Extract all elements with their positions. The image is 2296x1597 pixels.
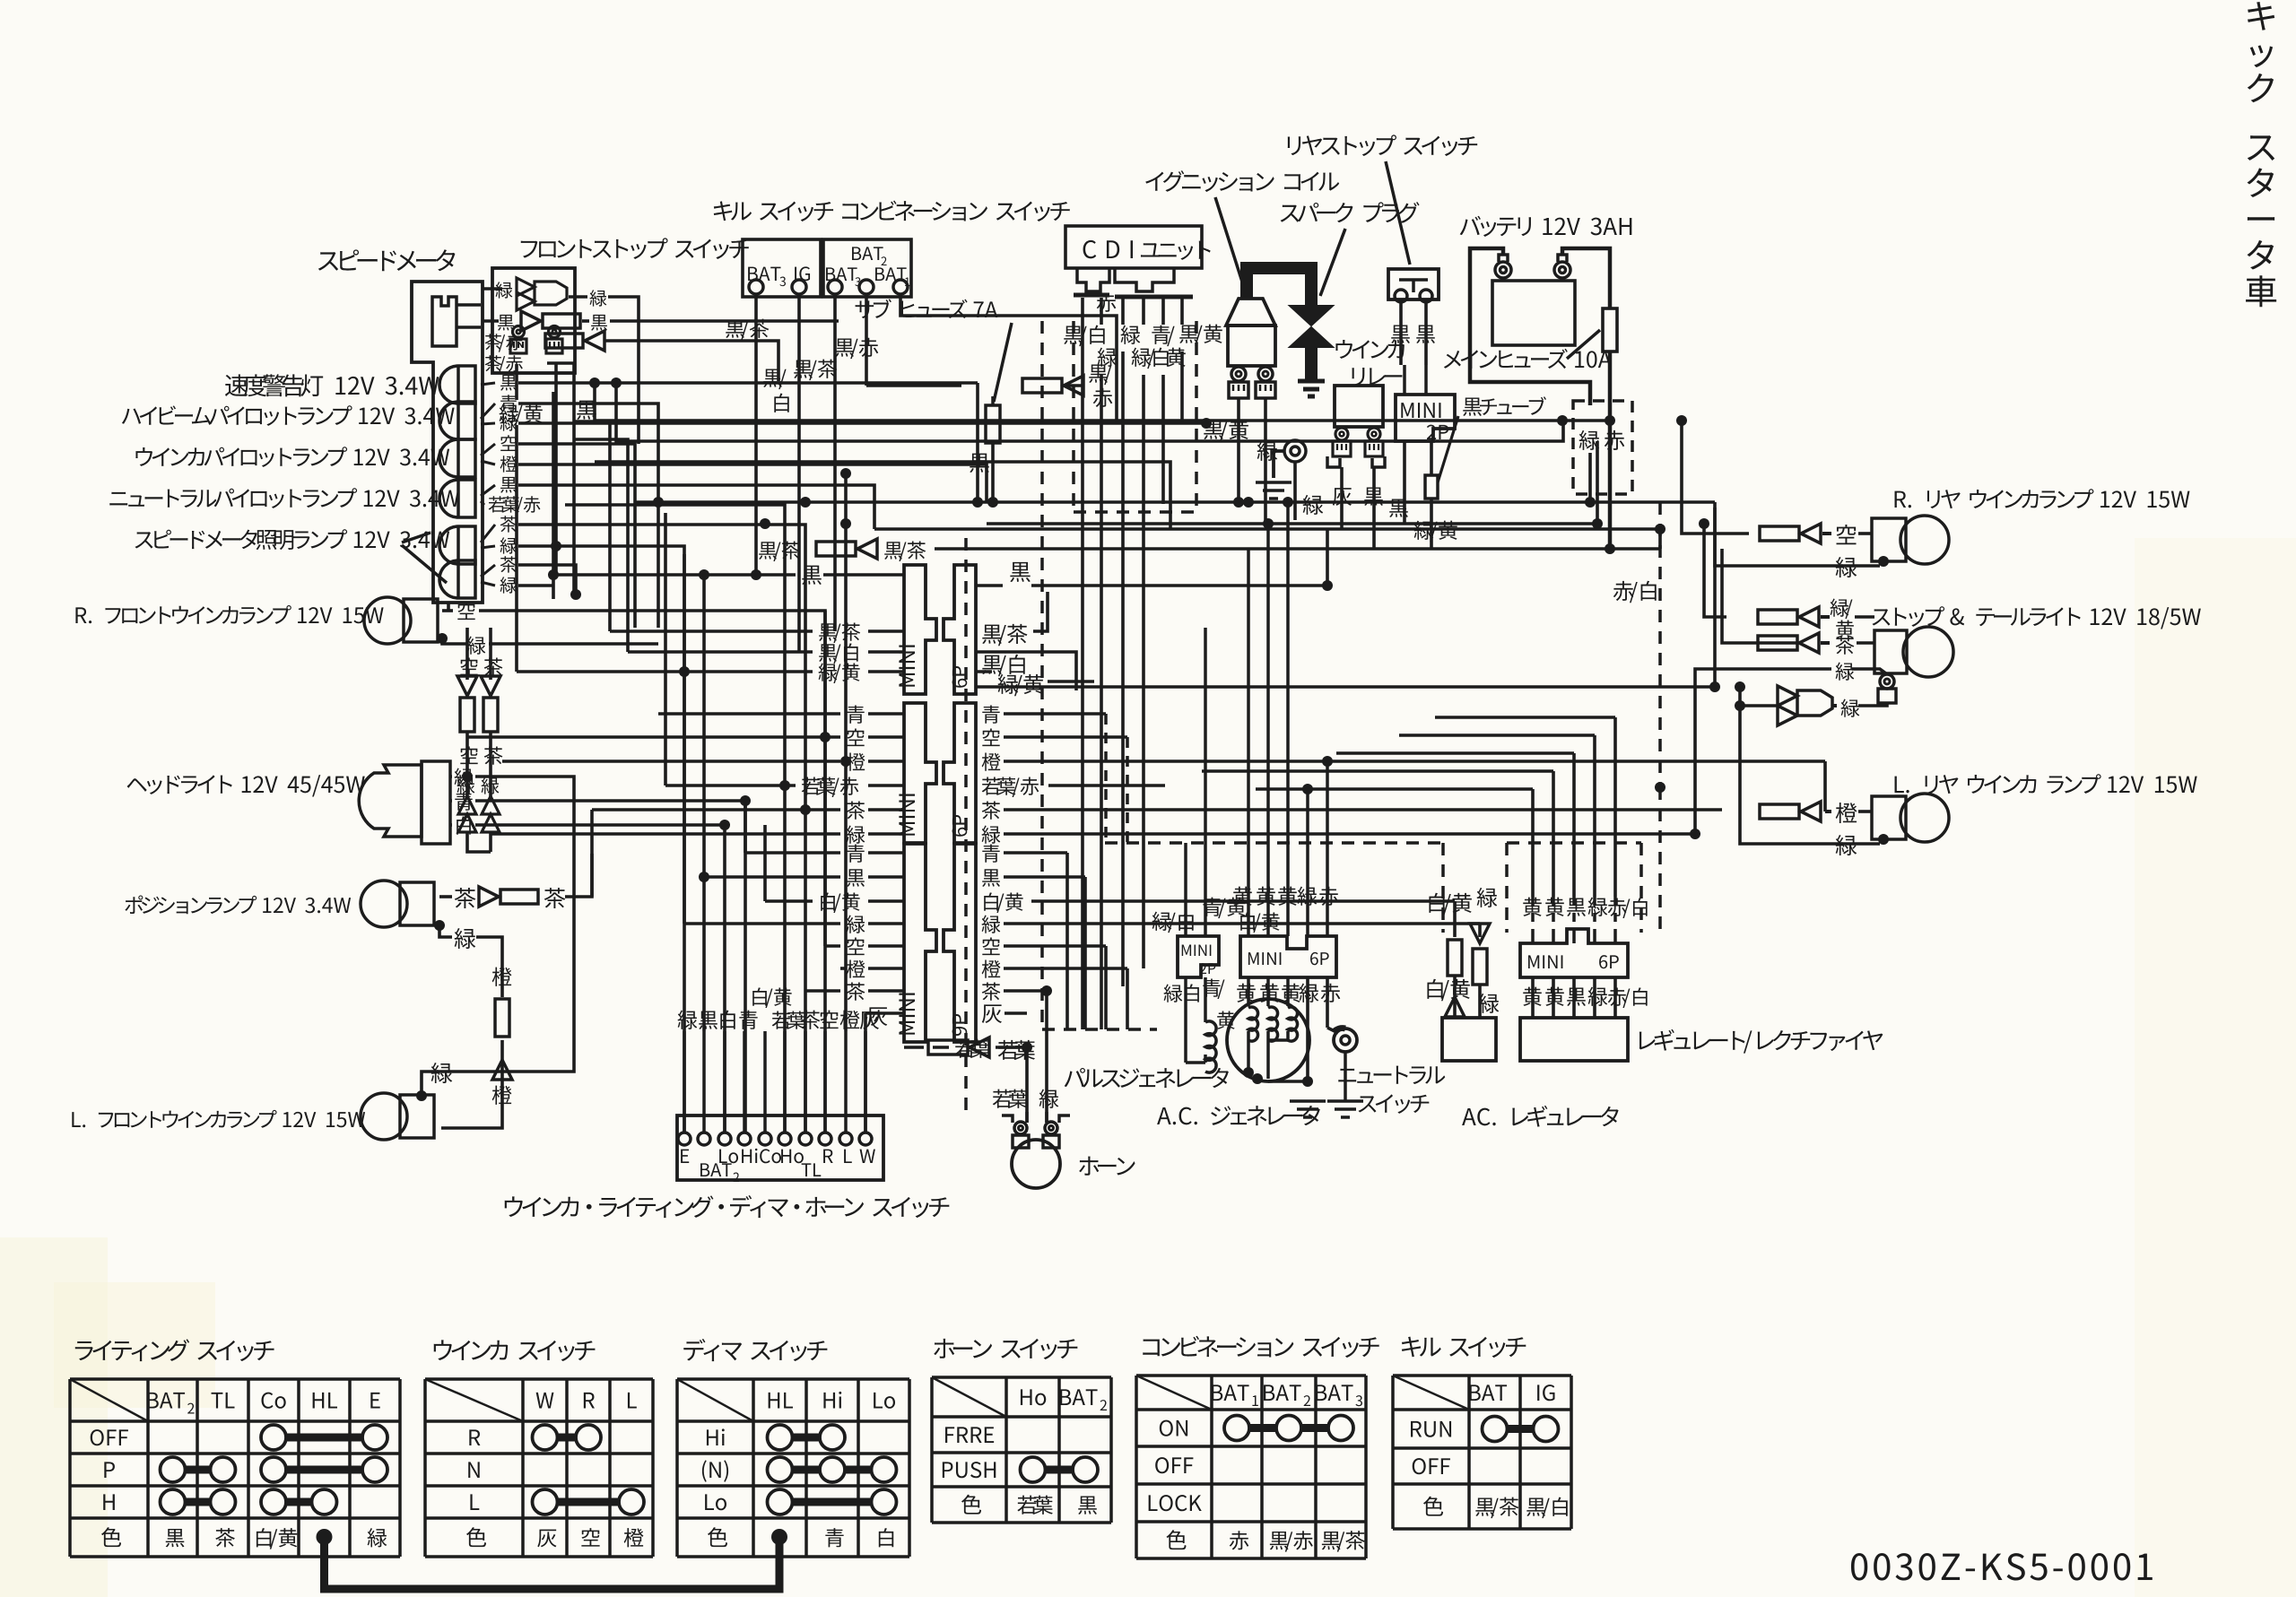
main fuse 10A	[1603, 308, 1617, 352]
wire white headlight	[450, 823, 452, 827]
relay terminals	[1335, 428, 1348, 440]
row black/brown right side	[982, 624, 1027, 646]
wire green to L rear winker	[1740, 687, 1880, 844]
terminal BAT1	[893, 280, 908, 294]
black tube component	[1425, 475, 1438, 499]
dashed sheath red/white down	[1658, 502, 1662, 787]
bullet connector brown/red	[545, 334, 583, 348]
label speed warning lamp	[225, 374, 323, 396]
horn	[1012, 1140, 1060, 1188]
wire blue down	[518, 404, 658, 628]
AC regulator fuse pair	[1429, 893, 1471, 916]
fuse tail 2	[1758, 636, 1797, 650]
wire black right	[1424, 302, 1428, 365]
label R front winker lamp	[75, 605, 383, 624]
label front stop switch	[521, 238, 749, 259]
lighting switch H row Co-HL connection	[274, 1498, 325, 1506]
wire green down to handlebar switch	[518, 546, 684, 1132]
switch terminal	[799, 1133, 812, 1145]
wire black below 2P	[1403, 441, 1406, 524]
label brown/red 2	[485, 355, 523, 373]
wire black bulb1	[481, 383, 495, 385]
tail lamp bulb	[1874, 630, 1907, 673]
wire brown position lamp	[439, 895, 452, 898]
winker pilot lamp bulb	[439, 439, 475, 477]
wire green long run	[518, 421, 1206, 425]
MINI 6P generator connector	[1240, 936, 1336, 977]
wire color labels above box	[678, 1011, 698, 1029]
front stop switch plugs	[513, 326, 525, 338]
label main fuse 10A	[1444, 349, 1612, 369]
label green	[496, 282, 513, 298]
wire green stub	[442, 638, 466, 644]
black/brown fuse row upper	[759, 542, 800, 561]
meter illumination bulb 1	[439, 526, 475, 564]
label green/yellow	[500, 404, 543, 425]
battery positive wire to main fuse	[1562, 248, 1610, 308]
wire brown bulb6	[481, 565, 495, 577]
row green/yellow into 6P	[517, 670, 813, 673]
ignition coil	[1226, 299, 1275, 325]
terminal labels	[681, 1150, 689, 1163]
bullet connector black	[521, 311, 541, 331]
row orange into 6P-2	[502, 759, 840, 763]
pointer to coil	[1215, 197, 1247, 296]
ring terminal + ground green	[1284, 440, 1306, 462]
position lamp bulb	[361, 881, 407, 927]
wire young leaf/red down to handlebar switch	[565, 505, 785, 1132]
terminal IG	[792, 280, 806, 294]
table winker switch	[434, 1340, 596, 1361]
AC generator	[1227, 999, 1309, 1081]
wire young-leaf/red bulb4b	[489, 496, 541, 514]
switch terminal	[839, 1133, 852, 1145]
label neutral pilot lamp	[109, 488, 459, 508]
row green/yellow right	[998, 674, 1043, 696]
wire sky from meter bottom	[447, 603, 450, 611]
wires from terminals up	[702, 1031, 706, 1132]
R front winker bulb	[364, 597, 411, 644]
dashed harness line right of connectors	[964, 538, 968, 1112]
battery box	[1492, 281, 1575, 345]
wire green/yellow to tail lamp	[1704, 524, 1726, 617]
speedometer cable plug	[432, 297, 457, 346]
meter illumination bulb 2	[439, 560, 475, 598]
wire green from meter top	[457, 303, 481, 307]
wires down to regulator top dashed	[1531, 789, 1535, 897]
drawing number	[1851, 1553, 2152, 1580]
switch terminal	[759, 1133, 771, 1145]
row gray into 9P	[865, 1011, 904, 1015]
wire orange with fuse down to L front winker	[492, 968, 512, 986]
table combination switch	[1143, 1336, 1378, 1358]
pointer to spark plug	[1320, 229, 1345, 296]
long row green right side	[976, 685, 1715, 689]
wire green headlight	[450, 775, 452, 778]
row orange into 9P	[840, 967, 846, 970]
wire green from meter turning down	[608, 297, 639, 444]
wire orange vertical	[844, 473, 848, 1031]
MINI 2P connector box (relay)	[1396, 395, 1455, 441]
label kill switch	[714, 201, 833, 221]
wire sky down to handlebar switch	[479, 611, 825, 1132]
label position lamp	[125, 895, 351, 914]
page title (vertical): kick starter vehicle	[2248, 2, 2274, 102]
label black tube	[1463, 396, 1546, 416]
wire green bulb2b	[500, 414, 517, 430]
label high beam pilot lamp	[122, 405, 455, 426]
label winker relay	[1335, 340, 1404, 359]
wire brown down to handlebar switch	[518, 525, 805, 1132]
neutral switch ground	[1327, 1101, 1363, 1117]
switch terminal	[859, 1133, 872, 1145]
wire black run 2	[518, 485, 874, 529]
wire green from coil	[1264, 398, 1267, 524]
switch terminal	[678, 1133, 691, 1145]
switch terminal	[718, 1133, 731, 1145]
tail lamp small plug	[1880, 674, 1894, 689]
row young-leaf/red into 6P-2	[665, 784, 796, 787]
label battery	[1460, 216, 1632, 237]
row black right side	[1010, 562, 1031, 582]
front stop switch box	[492, 268, 575, 373]
wire brown bulb5	[481, 525, 495, 542]
label black/white	[1064, 325, 1105, 347]
label black	[577, 401, 596, 420]
label green	[1098, 348, 1118, 367]
label black	[498, 315, 514, 331]
wire black to kill switch area	[610, 319, 839, 323]
outer dashed enclosure	[1040, 321, 1044, 1029]
spark plug label	[1281, 202, 1420, 223]
run y562	[635, 500, 1715, 504]
wire green to ground	[1306, 977, 1309, 1083]
wire red from BAT1	[900, 294, 1117, 421]
wire black/brown from BAT3	[833, 294, 837, 631]
wire sky vertical with fuse	[633, 502, 637, 628]
R rear winker bulb	[1872, 518, 1906, 561]
CDI unit box	[1065, 226, 1202, 268]
MINI 9P connector	[904, 844, 936, 1042]
vertical bus	[552, 392, 555, 599]
wire black/white from kill IG	[797, 294, 801, 652]
label speedometer illumination lamp	[135, 529, 450, 550]
label handlebar switch	[505, 1195, 950, 1218]
CDI dashed enclosure	[1072, 321, 1075, 512]
label stop and tail light	[1873, 606, 2201, 629]
sub fuse 7A label	[856, 299, 998, 318]
row green into 6P-2	[491, 832, 840, 836]
row brown into 6P-2	[592, 808, 840, 812]
CDI connectors	[1077, 268, 1109, 291]
fuse tail 1	[1758, 610, 1797, 624]
wire black left	[1399, 302, 1403, 365]
table lighting switch	[75, 1339, 274, 1361]
label combination switch	[842, 201, 1070, 221]
battery negative wire down	[1470, 248, 1590, 405]
wire brown/red 2 down	[547, 363, 574, 595]
fuse sky	[460, 698, 474, 732]
run y612	[987, 547, 1660, 551]
wire blue bulb2	[481, 404, 495, 419]
wire black vertical	[702, 575, 706, 1031]
label green2	[1121, 325, 1141, 344]
high beam pilot lamp bulb	[439, 402, 475, 439]
dot under HL color cell and thick link to dimmer table	[317, 1529, 333, 1545]
pointer to black tube	[1438, 416, 1458, 482]
young leaf fuse row bottom	[904, 1046, 924, 1049]
wire to R rear winker sky	[1682, 421, 1749, 534]
black/red fuse row	[866, 384, 961, 387]
bullet connector brown	[479, 887, 499, 907]
pulse generator coil	[1205, 1021, 1216, 1072]
wire black/red from BAT2	[865, 294, 868, 386]
fuse L rear winker	[1760, 804, 1799, 819]
combination switch box	[823, 239, 911, 297]
table kill switch	[1402, 1337, 1526, 1358]
wire brown to tail lamp	[1722, 549, 1798, 643]
regulator rectifier box	[1520, 1018, 1628, 1061]
run y515	[595, 462, 1170, 529]
pointer to sub fuse	[994, 323, 1012, 402]
junction dots at crossings	[653, 497, 664, 508]
winker relay box	[1335, 386, 1383, 427]
switch terminal	[698, 1133, 710, 1145]
wire green bulb6b	[500, 577, 517, 593]
label pulse generator	[1065, 1068, 1229, 1088]
label neutral switch	[1338, 1066, 1445, 1084]
wire green down to L front winker	[422, 924, 574, 1096]
wire blue headlight	[450, 799, 452, 803]
switch terminal	[778, 1133, 791, 1145]
label L front winker lamp	[72, 1110, 365, 1128]
lighting switch P row connections	[173, 1466, 223, 1474]
wire black from meter	[457, 325, 481, 329]
speedometer body	[412, 282, 483, 603]
pointer line to illumination bulb 1	[402, 533, 430, 542]
battery terminals	[1495, 262, 1511, 278]
pointer to main fuse	[1567, 330, 1600, 359]
wire black/brown from kill BAT3	[754, 294, 758, 575]
rear stop switch box	[1388, 269, 1439, 299]
neutral switch	[1334, 1029, 1357, 1052]
label regulator rectifier	[1639, 1029, 1883, 1054]
wire orange to L rear winker	[1823, 761, 1827, 812]
coil terminals	[1231, 367, 1246, 381]
fuse brown	[483, 698, 498, 732]
terminal BAT3b	[828, 280, 842, 294]
row blue into 9P	[745, 851, 840, 855]
label winker pilot lamp	[135, 447, 449, 467]
row brown into 9P	[805, 989, 840, 993]
speed warning lamp bulb	[439, 366, 475, 404]
MINI 2P pulse generator connector	[1178, 936, 1219, 977]
pulse generator	[1164, 985, 1183, 1002]
spark plug thick lead	[1247, 268, 1311, 308]
wire green bulb5b	[500, 537, 517, 553]
table dimmer switch	[683, 1339, 827, 1361]
label black/yellow	[1179, 325, 1222, 345]
wire sky down	[518, 444, 635, 502]
label L rear winker lamp	[1895, 774, 2197, 794]
wire black/yellow from coil	[1237, 398, 1240, 504]
row black into 9P	[704, 875, 840, 879]
row black into 6P	[556, 573, 796, 577]
young leaf wire from left	[955, 1039, 990, 1058]
label AC generator	[1157, 1106, 1320, 1125]
switch terminal	[819, 1133, 831, 1145]
row sky into 9P	[825, 944, 840, 948]
wire green/yellow from front stop switch	[515, 364, 518, 400]
MINI 6P connector no.1	[904, 565, 936, 694]
CDI wires down	[1081, 298, 1084, 325]
regulator wires	[1531, 897, 1535, 929]
wire green position lamp	[439, 925, 452, 937]
run y584	[987, 522, 1597, 525]
label AC regulator	[1462, 1106, 1619, 1127]
CDI wires continue	[1081, 325, 1084, 1029]
wire sky stub	[442, 609, 453, 612]
generator ground	[1290, 1101, 1326, 1117]
double bullet connector	[517, 278, 535, 310]
label green	[590, 290, 607, 306]
L rear winker bulb	[1872, 796, 1906, 839]
fuse R rear winker	[1760, 526, 1799, 541]
wire orange run	[518, 464, 987, 502]
label brown/red	[485, 334, 523, 352]
AC regulator box	[1442, 1018, 1496, 1061]
label rear stop switch	[1288, 135, 1477, 156]
wire green to tail lamp	[1695, 669, 1794, 834]
neutral pilot lamp bulb	[439, 480, 475, 517]
row sky into 6P-2	[467, 735, 840, 739]
wire orange bulb3b	[500, 456, 517, 472]
row black/brown into 6P	[610, 629, 813, 633]
connector pair to headlight greens	[457, 777, 475, 794]
wire green to R rear winker	[1715, 502, 1880, 566]
pointer line to illumination bulb 2	[402, 545, 447, 583]
terminal BAT2	[859, 280, 874, 294]
headlight bulb	[359, 765, 422, 837]
dashed box right of battery	[1573, 401, 1632, 494]
switch terminal	[738, 1133, 751, 1145]
row black/white right	[982, 655, 1024, 677]
wire red to neutral switch	[1326, 977, 1329, 1028]
label horn	[1079, 1157, 1135, 1176]
pointer to rear stop switch	[1386, 161, 1410, 265]
spark plug ground	[1298, 381, 1325, 396]
long top runs	[595, 383, 1562, 421]
label headlight	[127, 775, 365, 796]
label ignition coil	[1145, 170, 1339, 192]
wire brown short	[518, 565, 576, 595]
terminal BAT3	[749, 280, 763, 294]
row blue into 6P-2	[658, 712, 840, 716]
wire black bulb4	[481, 485, 495, 496]
wire brown/red right	[604, 341, 778, 381]
label red/white	[1613, 581, 1657, 603]
wire black from front stop switch down	[554, 364, 558, 575]
label black	[591, 315, 607, 331]
dashed box around regulator wires	[1505, 843, 1509, 933]
L front winker bulb	[361, 1093, 407, 1140]
kill switch box	[743, 239, 821, 297]
winker lighting dimmer horn switch box	[677, 1115, 883, 1180]
tail double connector	[1778, 686, 1797, 725]
row green into 9P	[684, 922, 840, 925]
wire green short	[518, 584, 553, 587]
wire green/yellow down	[515, 425, 518, 672]
row black/white into 6P	[628, 650, 813, 654]
wire black main run	[518, 381, 978, 385]
MINI 6P connector no.2	[904, 703, 936, 843]
row white/yellow into 9P	[765, 899, 813, 903]
wire green/yellow below 2P	[1430, 441, 1433, 475]
wire sky bulb3	[481, 444, 495, 456]
regulator rectifier MINI 6P	[1520, 929, 1628, 977]
label speedometer	[318, 249, 456, 271]
table horn switch	[934, 1339, 1077, 1359]
label R rear winker lamp	[1895, 489, 2190, 508]
lower generator connector wires rising	[1184, 843, 1187, 906]
sub fuse vertical	[991, 396, 995, 405]
